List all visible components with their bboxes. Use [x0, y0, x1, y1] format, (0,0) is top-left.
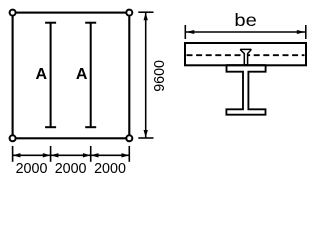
column top-left — [10, 10, 16, 16]
slab bottom edge over stud — [227, 64, 266, 66]
column bottom-left — [10, 135, 16, 141]
dimension 9600 ticks — [138, 12, 153, 138]
svg-text:2000: 2000 — [94, 161, 126, 177]
column top-right — [126, 10, 132, 16]
svg-text:9600: 9600 — [152, 60, 168, 92]
slab centerline dashed — [187, 54, 305, 56]
concrete slab section — [185, 43, 306, 65]
steel I-beam — [226, 65, 265, 114]
dimension be ticks — [185, 25, 305, 39]
dimension 9600 arrow up — [144, 12, 148, 20]
bottom dimension ticks — [13, 146, 130, 162]
dimension be line — [185, 31, 305, 33]
svg-text:be: be — [234, 11, 256, 31]
dimension be arrows — [186, 30, 306, 34]
svg-text:A: A — [36, 66, 48, 83]
plan outline (slab edge) — [13, 13, 130, 139]
dimension 9600 line — [145, 13, 147, 138]
beam line A2 — [85, 23, 96, 128]
bottom dimension lines — [13, 154, 130, 156]
shear stud connector — [241, 49, 251, 64]
column bottom-right — [126, 135, 132, 141]
dimension 9600 arrow down — [144, 130, 148, 138]
bottom dimension arrows — [13, 153, 130, 157]
beam line A1 — [45, 23, 56, 128]
svg-text:A: A — [76, 66, 88, 83]
svg-text:2000: 2000 — [16, 161, 48, 177]
svg-text:2000: 2000 — [55, 161, 87, 177]
